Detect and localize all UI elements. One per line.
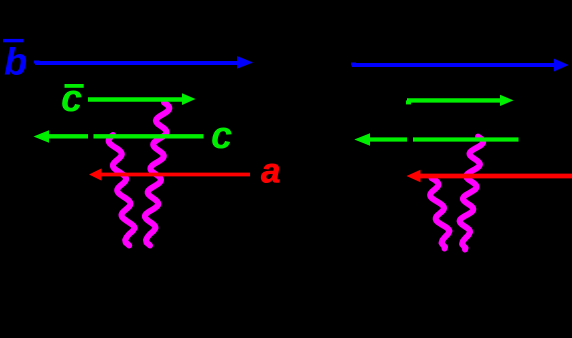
label cbar (green): [65, 84, 84, 88]
svg-text:c: c: [211, 115, 232, 157]
gluon g3 (right diagram, from c line): [460, 137, 484, 250]
gluon g2 (left diagram, from c line): [109, 135, 135, 246]
svg-text:c: c: [61, 78, 82, 120]
left diagram: a line (red, left arrow): [101, 173, 250, 177]
svg-text:b: b: [4, 42, 27, 84]
right diagram: cbar quark line (green, right arrow): [407, 98, 500, 102]
right diagram: a line (red, left arrow): [420, 174, 572, 179]
left diagram: cbar quark line (green, right arrow): [88, 97, 183, 102]
gluon g4 (right diagram, from a line): [430, 178, 449, 249]
right diagram: c quark line (green, left arrow, with gap): [370, 137, 408, 141]
gluon g1 (left diagram, from cbar line): [145, 103, 169, 246]
label bbar (blue): [3, 39, 23, 42]
left diagram: bbar quark line (blue, right arrow): [35, 61, 238, 65]
right diagram: bbar quark line (blue, right arrow): [352, 63, 554, 67]
left diagram: c quark line (green, left arrow, with gap): [49, 134, 89, 138]
svg-text:a: a: [261, 152, 280, 191]
